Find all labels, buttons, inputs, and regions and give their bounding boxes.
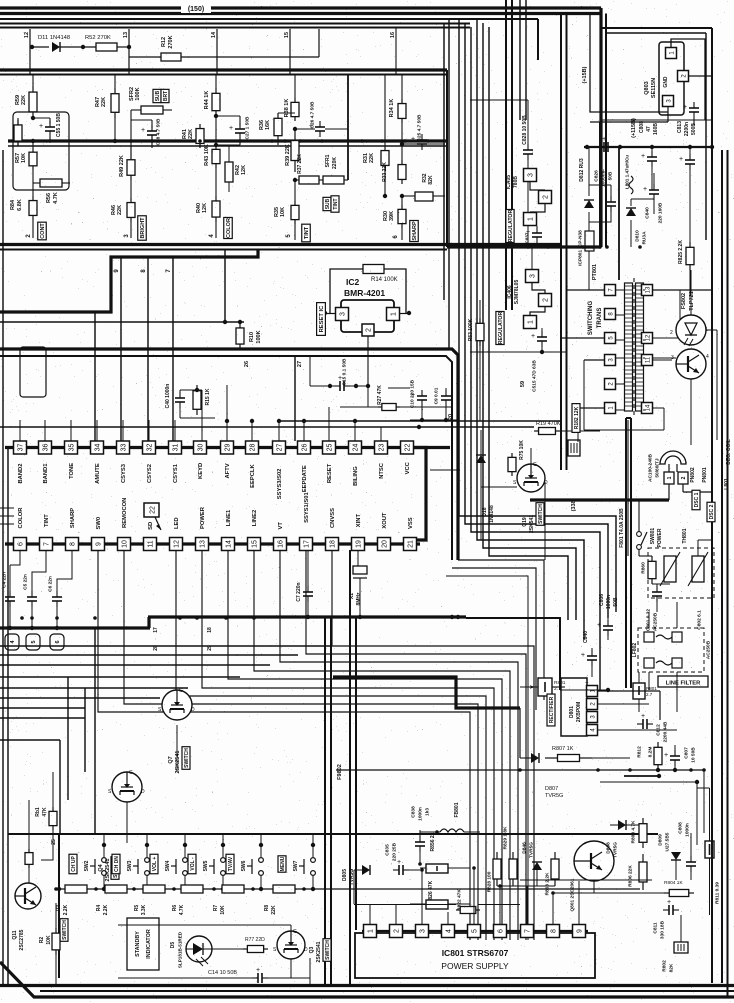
capacitor C836 series (598, 146, 604, 148)
resistor R34 1K (401, 75, 403, 100)
wire block bottom edge (0, 243, 560, 246)
wire led row (186, 948, 243, 950)
wire q19 conn (530, 448, 532, 464)
ic IC2 pin 2 (362, 324, 374, 336)
wire primary return pair B (630, 418, 632, 688)
resistor SFR2 100K (141, 106, 163, 114)
wire nest path 4 (202, 550, 494, 940)
wire Q803 pin3 down (667, 107, 669, 122)
wire bottom border 3 (40, 990, 734, 992)
wire vertical trunk 2 (465, 23, 608, 618)
wire ic801 pin risers (369, 904, 371, 925)
node (150) label (181, 2, 211, 13)
transistor Q19 2SK541 (517, 464, 545, 492)
ic pin 18 CNVSS (326, 538, 339, 551)
wire mid h y427 (0, 426, 534, 428)
transistor Q4 2SK2541 (112, 772, 142, 802)
transformer PT801 pin 2 (605, 379, 616, 390)
ic pin 11 SD (144, 538, 157, 551)
wire aftv up (226, 385, 228, 441)
wire switch resistor chain (59, 888, 640, 890)
resistor R30 39K (401, 196, 403, 205)
ic pin 34 AMUTE (91, 441, 104, 454)
wire keyd up (201, 390, 203, 441)
ic IC801 pin 1 (364, 925, 377, 938)
resistor R2 10K (55, 903, 57, 928)
wire cont junction (33, 117, 50, 119)
node junction dots switch chain (54, 887, 58, 891)
capacitor C837 10 63B (536, 226, 538, 230)
wire primary return pair A (625, 418, 627, 688)
transformer PT801 pin 11 sec (642, 355, 653, 366)
resistor R6 4.7K (181, 885, 203, 893)
transistor Q7 2SK2541 (162, 690, 192, 720)
wire bus drop right 3 (537, 19, 539, 60)
ic pin 23 NTSC (375, 441, 388, 454)
resistor R36 16K (277, 141, 279, 145)
crystal X1 8MHz (357, 550, 359, 566)
wire sharp pin stub (401, 228, 403, 240)
capacitor C10 220 15B (421, 390, 423, 394)
resistor R3 2.2K (65, 885, 87, 893)
wire color pin stub (215, 222, 217, 238)
wire thick drop x325 (324, 618, 326, 985)
wire pt801 winding stubs (616, 289, 624, 291)
wire tint right branch (347, 75, 349, 181)
wire top bus 2 (0, 12, 601, 15)
capacitor C801 0.22 AC250B (656, 584, 658, 590)
capacitor C14 10 50B (118, 977, 255, 979)
wire block right edge (446, 70, 448, 247)
wire nest path 5 (228, 550, 502, 940)
switch SW801 POWER (637, 532, 642, 537)
wire led return (185, 949, 187, 978)
wire pt801 pin7 left (566, 289, 604, 291)
wire row2 caps drop 6 (10, 550, 20, 565)
resistor R47 22K (114, 75, 116, 89)
ic pin 32 CSYS2 (143, 441, 156, 454)
wire thick drop x331 (330, 618, 332, 985)
wire right border outer (727, 150, 729, 997)
wire x295 drop (294, 356, 296, 441)
wire pt801 sec right (653, 289, 712, 291)
resistor R860 8.2K (651, 556, 653, 560)
ic pin 19 XINT (352, 538, 365, 551)
resistor SFR1 220K (323, 176, 344, 184)
resistor R40 12K (215, 168, 217, 196)
capacitor C4 22n (9, 565, 11, 592)
wire rect pin1 right (598, 690, 660, 692)
ic pin 20 XOUT (378, 538, 391, 551)
wire opto right down (716, 330, 718, 440)
ic IC801 pin 9 (573, 925, 586, 938)
wire rect pin4 (598, 729, 677, 731)
wire bottom border 2 (0, 985, 734, 987)
transformer PT801 secondary winding (636, 283, 644, 411)
capacitor C27 1 50B (239, 116, 241, 126)
node stub 6 (50, 634, 64, 650)
rectifier D801 pin 3 (587, 712, 598, 723)
switch SW3 CH DN (112, 854, 120, 874)
resistor R37 22K (299, 176, 319, 184)
wire nest path 7 (280, 550, 518, 940)
resistor R32 82K (415, 192, 433, 201)
node pin 15 (289, 29, 291, 74)
resistor R49 22K (130, 146, 132, 155)
transformer PT801 primary winding (625, 283, 633, 411)
wire q3 row top (118, 924, 291, 926)
node junction dots ic801 risers (420, 868, 424, 872)
ic IC801 pin 2 (390, 925, 403, 938)
capacitor C28 4.7 50B (151, 120, 153, 128)
wire nest right Ls (466, 618, 560, 690)
transformer PT801 pin 3 (605, 355, 616, 366)
transistor Q3 2SK2541 (277, 931, 305, 959)
node junction dots power rail (518, 768, 522, 772)
capacitor C812 2200 44B (637, 723, 643, 725)
resistor R12 270K (161, 53, 181, 61)
wire x95 drop (94, 312, 96, 441)
wire pt801 pin5 left (560, 337, 604, 339)
resistor R77 22D (243, 948, 247, 950)
wire nest level e (0, 687, 188, 689)
ic pin 10 REMOCON (118, 538, 131, 551)
wire mid h y421 (278, 420, 560, 422)
wire bottom border 1 (0, 962, 734, 997)
wire th801 conn (639, 555, 652, 557)
resistor R43 10K (215, 116, 217, 145)
node junction dots nest bus (20, 616, 24, 620)
wire x225 drop (224, 250, 226, 322)
ic pin 25 RESET (323, 441, 336, 454)
ic pin 35 TONE (65, 441, 78, 454)
wire thick drop x350 (349, 550, 351, 985)
label CONT (38, 222, 47, 240)
transformer PT801 pin 12 sec (642, 333, 653, 344)
capacitor C26 4.7 50B (319, 121, 321, 127)
capacitor C15 0.1 50B (310, 385, 336, 387)
wire nest level a (0, 645, 330, 647)
wire q801 emitter (593, 881, 595, 893)
switch SW6 TV/AV (226, 854, 234, 874)
wire nest path 6 (254, 550, 510, 940)
resistor R7 10K (222, 885, 244, 893)
wire block inner bus 2 (8, 145, 447, 147)
resistor R44 1K (215, 75, 217, 89)
transformer PT801 pin 7 (605, 285, 616, 296)
wire pin7 drop (172, 257, 174, 441)
transformer PT801 pin 1 (605, 403, 616, 414)
wire pt801 pin1 left (578, 407, 604, 409)
wire trunk C (519, 0, 521, 120)
diode D18 1N4148 (476, 455, 486, 463)
rectifier D801 pin 1 (587, 686, 598, 697)
resistor R31 22K (384, 75, 386, 147)
wire left nest lines (0, 739, 60, 741)
wire vertical trunk 4 (477, 19, 584, 640)
wire bus drop right 2 (605, 14, 607, 248)
capacitor C6 22n (57, 550, 72, 592)
resistor R10 100K (239, 322, 241, 323)
label TINT (302, 224, 311, 242)
ic IC801 pin 3 (416, 925, 429, 938)
resistor R56 4.7K (horizontal) (40, 179, 62, 187)
wire block bottom edge 2 (0, 249, 447, 251)
node junction dots block bus (31, 139, 35, 143)
switch SW2 CH UP (69, 854, 77, 874)
ic pin 26 EEPDATE (298, 441, 311, 454)
wire reg2 top (531, 247, 533, 270)
wire lf802 down (648, 612, 650, 628)
resistor R35 10K (294, 180, 296, 201)
resistor R8 22K (273, 885, 295, 893)
capacitor C7 220n (307, 550, 309, 586)
node pin 14 (216, 29, 218, 74)
wire main rail y770 (336, 769, 704, 771)
ic pin 8 SHARP (66, 538, 79, 551)
node stub 5 (26, 634, 40, 650)
wire bottom h rails (354, 904, 456, 906)
wire nest level g (0, 707, 85, 709)
capacitor C25 4.7 50B (421, 134, 423, 140)
ic IC801 pin 4 (442, 925, 455, 938)
wire bright pin stub (130, 222, 132, 238)
resistor R42 12K (225, 162, 233, 182)
wire right border power (721, 150, 723, 983)
node pin 16 stub (395, 28, 397, 74)
node pin 13 (128, 29, 130, 74)
wire left edge 1 (2, 150, 4, 985)
wire right mid verticals (560, 12, 562, 470)
resistor R15 1K (196, 385, 198, 391)
resistor R14 100K (363, 265, 384, 274)
wire thick drop x356 (355, 618, 357, 930)
ic pin 9 SW0 (92, 538, 105, 551)
diode D11 1N4148 (30, 46, 49, 48)
wire +15B v (590, 14, 668, 112)
transformer PT801 pin 14 sec (642, 403, 653, 414)
resistor R41 22K (199, 141, 201, 148)
label SUB TINT (323, 197, 331, 210)
wire nest path 9 (332, 550, 534, 940)
switch SW5 VOL - (188, 854, 196, 874)
wire left edge 2 (7, 448, 9, 985)
ic pin 16 VT (274, 538, 287, 551)
wire tint pin stub (294, 224, 296, 240)
wire nest level h (0, 717, 85, 719)
resistor R4 2.2K (105, 885, 127, 893)
ic pin 31 CSYS1 (169, 441, 182, 454)
wire thick trunk A (505, 0, 507, 310)
wire nest level d (0, 676, 240, 678)
wire vertical trunk 1 (459, 19, 616, 612)
diode D807 TVR5G (531, 753, 539, 763)
ic pin 6 COLOR (14, 538, 27, 551)
wire opto wires (690, 270, 692, 315)
wire r801 (520, 686, 538, 688)
wire right v x600 (599, 122, 601, 247)
wire top bus 5 (0, 27, 470, 29)
wire right border inner (705, 33, 707, 240)
wire trunk F (443, 24, 445, 300)
wire cont outline (13, 112, 69, 190)
wire reg2 bottom rail (470, 351, 566, 353)
resistor R39 22K (294, 129, 296, 141)
wire nest level b (0, 654, 298, 656)
wire rect pin2 (598, 703, 649, 705)
ic pin 24 BILING (349, 441, 362, 454)
wire thick L left (0, 250, 258, 312)
wire pin2 node down (367, 386, 369, 407)
capacitor C515 47D 63B (541, 328, 543, 334)
wire mid right h lines (430, 469, 460, 471)
wire vertical trunk 6 (489, 27, 568, 620)
capacitor C55 1 50B (49, 118, 51, 124)
wire block top edge 2 (0, 74, 447, 76)
resistor R52 270K (96, 43, 117, 51)
ic pin 14 LINE1 (222, 538, 235, 551)
ic pin 37 BAND2 (14, 441, 27, 454)
wire top bus 1 (0, 6, 601, 9)
ic pin 29 AFTV (221, 441, 234, 454)
ic pin 7 TINT (40, 538, 53, 551)
node pin 12 (29, 29, 31, 74)
switch SW7 MENU (278, 856, 286, 872)
wire c811 drop (680, 915, 682, 942)
wire bus left jog (0, 626, 150, 629)
ic pin 12 LED (170, 538, 183, 551)
rectifier D801 2KBP0M (561, 678, 587, 736)
resistor R807 1K (545, 757, 558, 759)
wire cont left branch (17, 118, 19, 146)
capacitor C5 22n (32, 550, 46, 592)
wire nest path 8 (306, 550, 526, 940)
ic pin 30 KEYD (194, 441, 207, 454)
node junction dots rail y247 (526, 245, 530, 249)
ic IC2 pin 3 (336, 308, 349, 321)
wire thick x619 (618, 147, 620, 280)
wire pt801 pin11 to opto (653, 357, 676, 359)
ic pin 36 BAND1 (39, 441, 52, 454)
wire pin9 drop (120, 257, 122, 441)
connector 111 box (568, 440, 580, 456)
ic pin 17 SSYS1/S01 (300, 538, 313, 551)
ic IC2 body (341, 300, 394, 332)
ic pin 28 EEPCLK (246, 441, 259, 454)
wire switch bus top (8, 833, 658, 835)
label COLOR (224, 217, 233, 238)
resistor R19 470K (534, 430, 539, 432)
node stub 4 (5, 634, 19, 650)
wire row1 pin tops (19, 420, 21, 441)
wire rail y782 (600, 781, 697, 783)
wire sw801 (638, 500, 640, 532)
resistor R59 22K (32, 75, 34, 87)
ic IC801 pin 7 (521, 925, 534, 938)
wire nest top bus (148, 615, 466, 618)
ic pin 27 SSYS3/S02 (273, 441, 286, 454)
wire pin23 riser (380, 427, 382, 441)
connector III box (674, 942, 688, 953)
wire right h y120 (600, 119, 712, 121)
transformer PT801 pin 8 (605, 309, 616, 320)
resistor R851 fuse box (633, 683, 645, 699)
optocoupler FS802 diode (676, 315, 706, 345)
resistor R46 22K (130, 180, 132, 198)
label STANDBY INDICATOR (127, 918, 159, 970)
wire bottom right rails (520, 879, 652, 881)
wire pt801 pin3 left (584, 359, 604, 361)
wire vertical trunk 5 (483, 23, 576, 620)
wire ic801 pin bus (362, 930, 588, 932)
ic IC801 pin 8 (547, 925, 560, 938)
wire row1 pin stubs up (251, 421, 253, 441)
rectifier D801 pin 2 (587, 699, 598, 710)
wire pin8 drop (147, 257, 149, 441)
wire pt801 pin3 to r182 (584, 429, 664, 431)
ic pin 21 VSS (404, 538, 417, 551)
wire cont pin stub (32, 220, 34, 238)
resistor R182 12K (572, 404, 580, 433)
resistor R38 1K (294, 75, 296, 99)
wire Q803 pin2 right (689, 75, 712, 77)
ic IC801 pin 5 (468, 925, 481, 938)
wire nest level c (0, 664, 270, 666)
wire IC2 pin2 down (367, 336, 369, 386)
wire vcc-vss bracket (414, 448, 426, 541)
wire nest path 1 (98, 550, 470, 940)
ic IC2 pin 1 (387, 308, 400, 321)
wire right rail y147 (584, 146, 714, 148)
wire rail drops (629, 724, 631, 758)
wire pin row 2 bus (5, 542, 420, 545)
wire rail y776 (624, 775, 659, 777)
label BRIGHT (138, 216, 147, 240)
node 22 remote box (144, 503, 159, 517)
wire thick trunk B (511, 0, 513, 310)
wire Q803 collector up (671, 39, 705, 120)
wire bus pair y349 (0, 349, 458, 560)
ic IC801 STRS6707 body (355, 933, 595, 978)
resistor R57 10K (32, 141, 34, 148)
wire nest path 2 (124, 550, 478, 940)
capacitor C817 (693, 102, 695, 108)
label LINE FILTER (658, 676, 708, 687)
plug PN802 pins (664, 472, 674, 484)
wire nest bottom thick L (333, 677, 520, 708)
wire nest level f (0, 697, 160, 699)
wire block top edge 1 (0, 68, 447, 71)
label SUB BRT (153, 89, 161, 102)
resistor R84 6.8K (32, 170, 34, 196)
wire vertical trunk 3 (471, 27, 600, 690)
optocoupler FS802 transistor (676, 349, 706, 379)
ic pin 13 POWER (196, 538, 209, 551)
wire pin row 1 bus (5, 446, 450, 449)
wire bus pair y356 (0, 356, 452, 560)
wire r12 riser (318, 29, 320, 57)
resistor R27 47K (340, 406, 378, 408)
wire left nest to bottom 1 (94, 628, 96, 834)
ic pin 22 VCC (401, 441, 414, 454)
wire bright v (114, 118, 116, 141)
transistor Q11 2SC2785 (15, 883, 41, 909)
component box left (20, 347, 46, 397)
ic IC801 pin 6 (494, 925, 507, 938)
wire bus y322 (0, 321, 244, 323)
line filter LF802 (638, 628, 704, 672)
ic pin 33 CSYS3 (117, 441, 130, 454)
